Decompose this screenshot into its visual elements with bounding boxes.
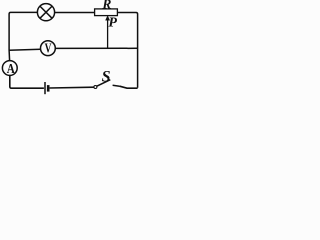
svg-text:P: P — [108, 15, 117, 30]
wire: left rail junction down to ammeter — [8, 50, 11, 61]
wire: top-left from lamp to corner and down to voltmeter junction — [9, 12, 37, 50]
voltmeter U1 — [41, 40, 56, 56]
battery B1 — [45, 82, 48, 94]
wire: switch to bottom-right corner — [120, 86, 138, 88]
resistor R (rheostat body) — [95, 9, 118, 16]
switch S (open) — [94, 80, 120, 89]
wire: voltmeter left lead to left rail junction — [9, 49, 40, 50]
svg-text:S: S — [102, 68, 111, 85]
lamp L1 — [37, 4, 54, 21]
wiper arrow P of rheostat — [106, 16, 110, 49]
wire: rheostat right to top-right corner and down right side — [117, 13, 137, 88]
svg-text:A: A — [7, 61, 16, 76]
wire: battery to switch pivot — [50, 86, 94, 89]
svg-text:V: V — [45, 40, 52, 56]
svg-text:R: R — [101, 0, 111, 12]
wire: lamp to rheostat — [55, 12, 95, 14]
wire: ammeter down to bottom-left corner and right to battery — [10, 75, 44, 88]
ammeter A — [2, 61, 17, 77]
wire: voltmeter right lead to wiper stem — [55, 47, 137, 49]
